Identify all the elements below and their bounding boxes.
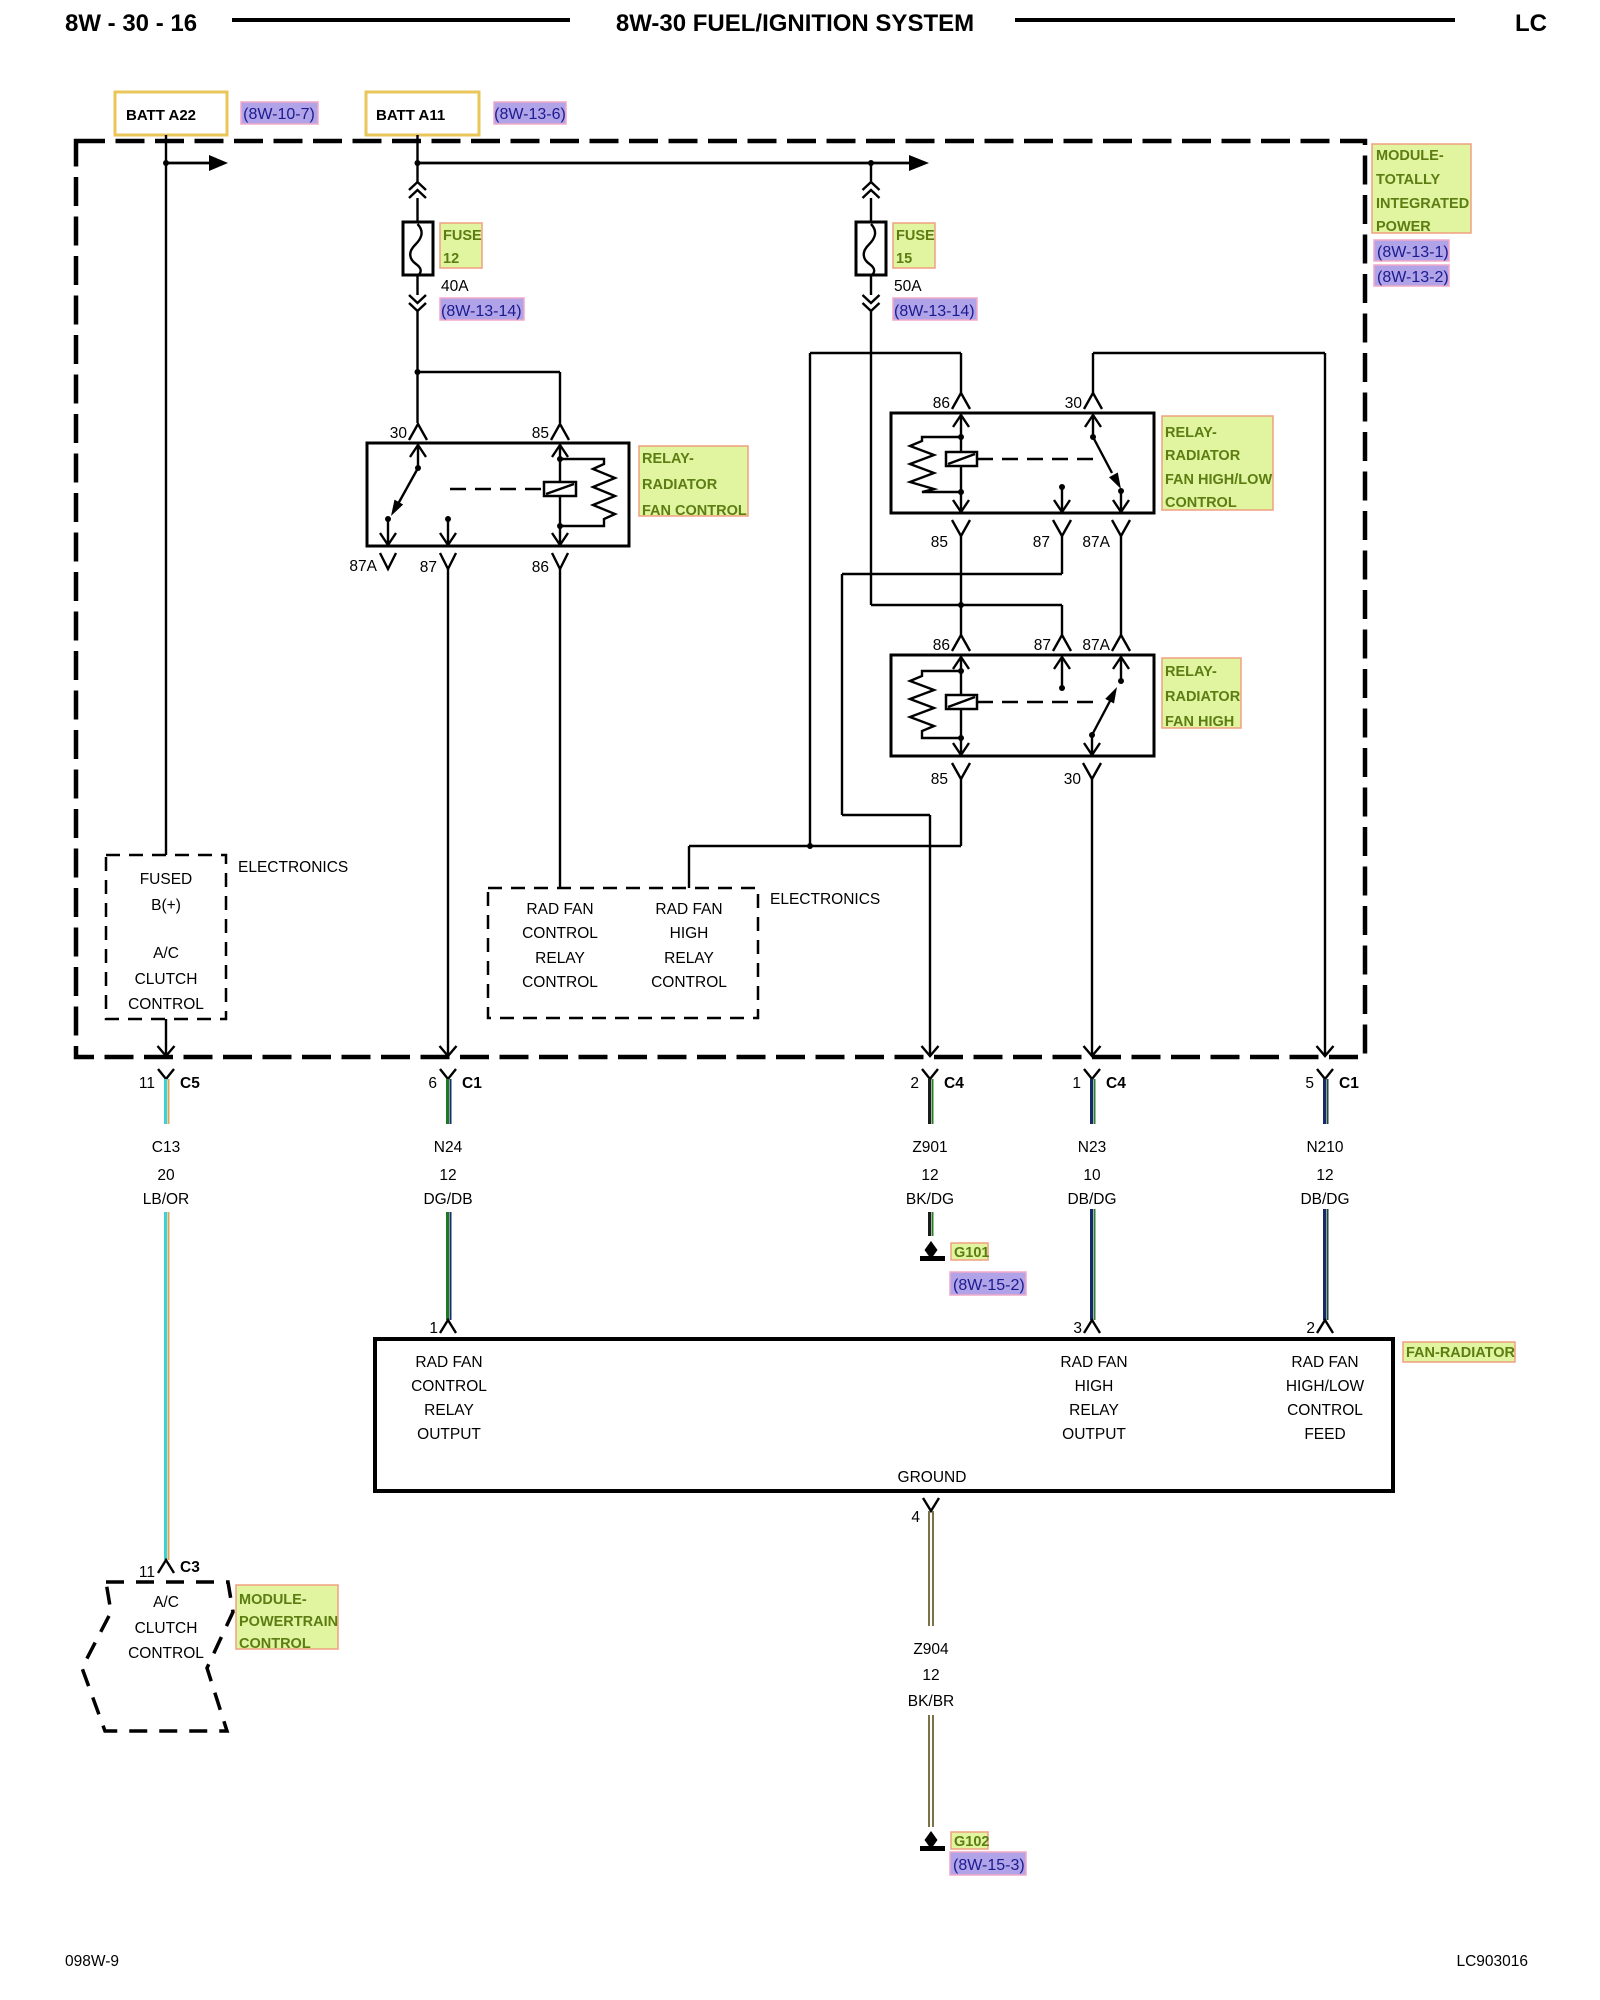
svg-text:FAN HIGH: FAN HIGH — [1165, 714, 1234, 730]
wire A11 feed horizontal — [418, 155, 930, 171]
reference (8W-13-14) — [893, 298, 977, 320]
svg-text:HIGH/LOW: HIGH/LOW — [1286, 1378, 1365, 1395]
svg-text:N210: N210 — [1306, 1139, 1343, 1156]
svg-text:8W-30 FUEL/IGNITION SYSTEM: 8W-30 FUEL/IGNITION SYSTEM — [616, 10, 974, 37]
pin 86 internal terminal — [552, 526, 568, 545]
node junction fuse 12 branch — [415, 369, 421, 375]
svg-text:30: 30 — [1064, 771, 1082, 788]
connector C1 terminal chevron — [1317, 1069, 1333, 1079]
pin 86 internal terminal — [953, 657, 969, 671]
pin 87A connector caret — [1112, 520, 1130, 536]
pin 87 connector caret — [1053, 520, 1071, 536]
pin 85 internal terminal — [552, 445, 568, 459]
header rule right — [1015, 18, 1455, 22]
label MODULE-POWERTRAIN CONTROL — [236, 1585, 338, 1652]
wire N210 12 DB/DG segment 1 — [1325, 1079, 1328, 1124]
ground G101 — [920, 1241, 945, 1261]
svg-text:OUTPUT: OUTPUT — [417, 1426, 481, 1443]
resistor K2 coil shunt — [910, 437, 961, 492]
wire — [416, 198, 418, 222]
svg-text:30: 30 — [1065, 395, 1083, 412]
svg-text:85: 85 — [931, 534, 948, 551]
svg-text:CONTROL: CONTROL — [522, 974, 598, 991]
svg-text:RAD FAN: RAD FAN — [1291, 1354, 1358, 1371]
svg-text:RELAY: RELAY — [664, 950, 714, 967]
node junction on A22 feed — [163, 160, 169, 166]
svg-text:86: 86 — [532, 559, 549, 576]
pin 86 internal terminal — [953, 415, 969, 437]
svg-text:OUTPUT: OUTPUT — [1062, 1426, 1126, 1443]
wire label N24 12 DG/DB — [423, 1139, 472, 1208]
svg-text:N23: N23 — [1078, 1139, 1106, 1156]
svg-text:FUSE: FUSE — [896, 228, 935, 244]
pin 85 connector caret — [952, 763, 970, 779]
svg-text:CONTROL: CONTROL — [1287, 1402, 1363, 1419]
pin 87 connector caret — [1053, 635, 1071, 651]
svg-text:C13: C13 — [152, 1139, 180, 1156]
wire K1 pin 86 to electronics — [559, 569, 561, 888]
svg-text:CONTROL: CONTROL — [651, 974, 727, 991]
svg-text:CONTROL: CONTROL — [411, 1378, 487, 1395]
reference (8W-10-7) — [241, 102, 318, 124]
switch arm K3 — [1089, 687, 1117, 738]
svg-text:BK/DG: BK/DG — [906, 1191, 954, 1208]
wire K2-87 ground path — [842, 536, 1062, 1056]
wire N24 12 DG/DB segment 1 — [448, 1079, 451, 1124]
label RELAY-RADIATOR FAN HIGH/LOW CONTROL — [1162, 416, 1273, 511]
svg-text:FAN CONTROL: FAN CONTROL — [642, 503, 747, 519]
module PCM partial outline A/C clutch control — [82, 1582, 233, 1731]
svg-text:(8W-13-14): (8W-13-14) — [441, 303, 522, 320]
svg-text:87A: 87A — [1082, 534, 1110, 551]
svg-text:(8W-15-2): (8W-15-2) — [953, 1277, 1025, 1294]
svg-text:12: 12 — [439, 1167, 456, 1184]
pin 85 internal terminal — [953, 738, 969, 755]
reference (8W-15-2) — [950, 1272, 1026, 1295]
pin 30 connector caret — [1084, 393, 1102, 409]
node — [1090, 434, 1096, 440]
pin 30 internal terminal — [1085, 415, 1101, 437]
svg-text:CONTROL: CONTROL — [1165, 495, 1237, 511]
svg-text:C4: C4 — [944, 1075, 964, 1092]
svg-text:RAD FAN: RAD FAN — [655, 901, 722, 918]
relay K1 radiator fan control box — [367, 443, 629, 546]
svg-text:(8W-10-7): (8W-10-7) — [243, 106, 315, 123]
svg-text:12: 12 — [921, 1167, 938, 1184]
wire K2-87A to K3-87A — [1120, 536, 1122, 635]
wire K1 pin 87 to connector C1-6 — [447, 569, 449, 1056]
svg-text:C1: C1 — [462, 1075, 482, 1092]
svg-text:12: 12 — [443, 251, 459, 267]
svg-text:20: 20 — [157, 1167, 175, 1184]
svg-text:C1: C1 — [1339, 1075, 1359, 1092]
svg-text:RADIATOR: RADIATOR — [1165, 689, 1241, 705]
header rule left — [232, 18, 570, 22]
svg-text:1: 1 — [1072, 1075, 1081, 1092]
svg-text:G101: G101 — [954, 1245, 989, 1261]
connector caret fan pin 4 ground — [923, 1498, 939, 1511]
wire TIPM internal to K2-86 — [810, 352, 961, 354]
svg-text:BATT A11: BATT A11 — [376, 107, 445, 124]
svg-text:DB/DG: DB/DG — [1300, 1191, 1349, 1208]
pin 87A internal terminal — [1113, 488, 1129, 512]
switch arm K2 — [1093, 437, 1121, 489]
svg-text:40A: 40A — [441, 278, 469, 295]
node junction at A11 — [415, 160, 421, 166]
wire C13 20 LB/OR segment 1 — [166, 1079, 169, 1124]
svg-text:85: 85 — [931, 771, 948, 788]
fuse F15 — [856, 222, 886, 276]
label RELAY-RADIATOR FAN CONTROL — [639, 446, 748, 519]
node — [958, 735, 964, 741]
wire — [870, 275, 872, 295]
wire label N210 12 DB/DG — [1300, 1139, 1349, 1208]
pin 30 internal terminal — [1084, 735, 1100, 755]
svg-text:CONTROL: CONTROL — [239, 1636, 311, 1652]
svg-text:(8W-13-1): (8W-13-1) — [1377, 244, 1449, 261]
svg-text:LB/OR: LB/OR — [143, 1191, 190, 1208]
svg-text:(8W-13-6): (8W-13-6) — [494, 106, 566, 123]
battery feed label BATT A11 — [366, 92, 479, 135]
svg-text:HIGH: HIGH — [670, 925, 709, 942]
wire Z904 12 BK/BR segment 2 — [929, 1715, 933, 1827]
svg-text:FAN-RADIATOR: FAN-RADIATOR — [1406, 1345, 1516, 1361]
label G102 — [951, 1832, 989, 1850]
wire N23 10 DB/DG segment 1 — [1092, 1079, 1095, 1124]
svg-text:C4: C4 — [1106, 1075, 1126, 1092]
wire N23 10 DB/DG segment 2 — [1092, 1209, 1095, 1320]
svg-text:ELECTRONICS: ELECTRONICS — [238, 859, 348, 876]
wire K2-30 to C1-5 feed — [1093, 352, 1325, 354]
node junction at K3-86 — [958, 602, 964, 608]
node — [415, 465, 421, 471]
svg-text:86: 86 — [933, 637, 950, 654]
svg-text:POWER: POWER — [1376, 219, 1431, 235]
connector C5 terminal chevron — [158, 1069, 174, 1079]
connector C3 terminal chevron — [158, 1560, 174, 1573]
svg-text:RELAY-: RELAY- — [1165, 425, 1217, 441]
svg-text:CLUTCH: CLUTCH — [135, 971, 198, 988]
wire fuse F15 distribution — [871, 604, 1062, 606]
connector C1 pin 5 exit arrow — [1317, 1046, 1334, 1056]
actuator dashed link K2 — [977, 458, 1100, 460]
svg-text:RAD FAN: RAD FAN — [1060, 1354, 1127, 1371]
svg-text:11: 11 — [139, 1075, 155, 1092]
svg-text:RELAY-: RELAY- — [642, 451, 694, 467]
svg-text:CONTROL: CONTROL — [128, 996, 204, 1013]
svg-text:BK/BR: BK/BR — [908, 1693, 955, 1710]
svg-text:CLUTCH: CLUTCH — [135, 1620, 198, 1637]
svg-text:POWERTRAIN: POWERTRAIN — [239, 1614, 338, 1630]
node — [958, 489, 964, 495]
svg-text:(8W-13-14): (8W-13-14) — [894, 303, 975, 320]
svg-text:B(+): B(+) — [151, 897, 181, 914]
wire relay K2 pin 30 riser — [1092, 353, 1094, 393]
svg-text:(8W-13-2): (8W-13-2) — [1377, 269, 1449, 286]
svg-text:FUSED: FUSED — [140, 871, 193, 888]
module PCM partial FUSED B+ dashed box — [106, 855, 226, 1019]
wire Z901 12 BK/DG segment 2 — [930, 1212, 933, 1236]
svg-text:FAN HIGH/LOW: FAN HIGH/LOW — [1165, 472, 1272, 488]
svg-text:15: 15 — [896, 251, 912, 267]
wire label N23 10 DB/DG — [1067, 1139, 1116, 1208]
relay K3 radiator fan high box — [891, 655, 1154, 756]
node — [557, 523, 563, 529]
svg-text:CONTROL: CONTROL — [128, 1645, 204, 1662]
pin 87 connector caret — [440, 553, 456, 569]
connector C1 terminal chevron — [440, 1069, 456, 1079]
actuator dashed link K3 — [977, 701, 1095, 703]
pin 85 internal terminal — [953, 492, 969, 512]
actuator dashed link K1 — [450, 488, 544, 490]
svg-text:RADIATOR: RADIATOR — [642, 477, 718, 493]
svg-text:2: 2 — [910, 1075, 919, 1092]
svg-text:4: 4 — [911, 1509, 920, 1526]
label FUSE 12 — [440, 223, 482, 268]
label MODULE-TOTALLY INTEGRATED POWER — [1372, 144, 1471, 235]
connector caret fan pin 1 — [440, 1320, 456, 1333]
pin 87 internal terminal — [1054, 484, 1070, 512]
svg-text:5: 5 — [1305, 1075, 1314, 1092]
svg-text:MODULE-: MODULE- — [239, 1592, 307, 1608]
svg-text:8W - 30 - 16: 8W - 30 - 16 — [65, 10, 197, 37]
pin 86 connector caret — [952, 635, 970, 651]
svg-text:ELECTRONICS: ELECTRONICS — [770, 891, 880, 908]
wire A22 branch arrow — [166, 155, 228, 171]
svg-text:RAD FAN: RAD FAN — [415, 1354, 482, 1371]
connector chevrons above fuse F12 — [409, 182, 426, 198]
svg-text:12: 12 — [1316, 1167, 1333, 1184]
wire drop to electronics box — [688, 846, 690, 888]
wire relay K2 pin 86 riser — [960, 353, 962, 393]
wire fuse F15 output — [870, 311, 872, 605]
node junction — [807, 843, 813, 849]
svg-text:3: 3 — [1073, 1320, 1082, 1337]
pin 87 internal terminal — [440, 516, 456, 545]
svg-text:FEED: FEED — [1304, 1426, 1345, 1443]
relay K2 radiator fan high/low control box — [891, 413, 1154, 513]
node junction fuse 15 tap — [868, 160, 874, 166]
pin 30 connector caret — [409, 424, 427, 440]
node — [958, 668, 964, 674]
coil K1 — [544, 459, 576, 526]
pin 30 connector caret — [1083, 763, 1101, 779]
svg-text:6: 6 — [428, 1075, 437, 1092]
resistor K1 coil shunt — [560, 459, 615, 526]
node — [557, 456, 563, 462]
wire — [416, 275, 418, 295]
svg-text:TOTALLY: TOTALLY — [1376, 172, 1441, 188]
svg-text:098W-9: 098W-9 — [65, 1953, 119, 1970]
svg-text:RELAY: RELAY — [1069, 1402, 1119, 1419]
svg-text:DB/DG: DB/DG — [1067, 1191, 1116, 1208]
connector chevrons above fuse F15 — [863, 182, 880, 198]
svg-text:12: 12 — [922, 1667, 939, 1684]
battery feed label BATT A22 — [115, 92, 227, 135]
svg-text:HIGH: HIGH — [1075, 1378, 1114, 1395]
svg-text:87: 87 — [420, 559, 437, 576]
svg-text:50A: 50A — [894, 278, 922, 295]
module U1 Totally Integrated Power dashed outline — [76, 141, 1365, 1057]
svg-text:LC: LC — [1515, 10, 1547, 37]
electronics control dashed box — [488, 888, 758, 1018]
svg-text:FUSE: FUSE — [443, 228, 482, 244]
pin 87A connector caret — [380, 553, 396, 569]
pin 87A internal terminal — [1113, 657, 1129, 684]
wire BATT A22 vertical — [165, 135, 167, 855]
pin 87A internal terminal — [380, 516, 396, 545]
svg-text:RELAY: RELAY — [535, 950, 585, 967]
pin 87A connector caret — [1112, 635, 1130, 651]
connector caret fan pin 3 — [1084, 1320, 1100, 1333]
component fan-radiator box — [375, 1339, 1393, 1491]
wire N24 12 DG/DB segment 2 — [448, 1212, 451, 1320]
svg-text:RAD FAN: RAD FAN — [526, 901, 593, 918]
connector C4 pin 1 exit arrow — [1084, 1046, 1101, 1056]
pin 85 connector caret — [952, 520, 970, 536]
coil K2 — [946, 437, 977, 492]
wire electronics to K3-85 — [689, 845, 961, 847]
wire branch to relay K1 pin 85 — [418, 371, 561, 373]
svg-text:87A: 87A — [1082, 637, 1110, 654]
wire label Z904 12 BK/BR — [908, 1641, 955, 1710]
svg-text:CONTROL: CONTROL — [522, 925, 598, 942]
wire — [870, 163, 872, 182]
wire fuse F12 output — [416, 311, 418, 423]
wire C13 20 LB/OR segment 2 — [166, 1212, 169, 1560]
wire label Z901 12 BK/DG — [906, 1139, 954, 1208]
connector C1 pin 6 exit arrow — [440, 1046, 457, 1056]
reference (8W-13-14) — [440, 298, 524, 320]
coil K3 — [946, 671, 977, 738]
pin 86 connector caret — [952, 393, 970, 409]
resistor K3 coil shunt — [910, 671, 961, 738]
svg-text:85: 85 — [532, 425, 549, 442]
wire K2-85 to fuse F15 node — [960, 536, 962, 605]
svg-text:GROUND: GROUND — [898, 1469, 967, 1486]
wire K3-30 to connector C4-1 — [1091, 779, 1093, 1056]
wire Z901 12 BK/DG segment 1 — [930, 1079, 933, 1124]
connector C5 pin 11 exit arrow — [158, 1019, 175, 1056]
wire BATT A11 vertical — [416, 135, 418, 182]
svg-text:LC903016: LC903016 — [1456, 1953, 1528, 1970]
svg-text:MODULE-: MODULE- — [1376, 148, 1444, 164]
pin 87 internal terminal — [1054, 657, 1070, 691]
label G101 — [951, 1243, 989, 1261]
connector chevrons below fuse F15 — [863, 295, 880, 311]
ground G102 — [920, 1831, 945, 1851]
svg-text:A/C: A/C — [153, 1594, 179, 1611]
svg-text:RELAY-: RELAY- — [1165, 664, 1217, 680]
connector chevrons below fuse F12 — [409, 295, 426, 311]
svg-text:30: 30 — [390, 425, 408, 442]
wire to K3-86 — [960, 605, 962, 635]
svg-text:G102: G102 — [954, 1834, 989, 1850]
svg-text:Z904: Z904 — [913, 1641, 949, 1658]
svg-text:2: 2 — [1306, 1320, 1315, 1337]
reference (8W-15-3) — [950, 1852, 1026, 1875]
svg-text:BATT A22: BATT A22 — [126, 107, 196, 124]
wire N210 12 DB/DG segment 2 — [1325, 1209, 1328, 1320]
connector C4 terminal chevron — [1084, 1069, 1100, 1079]
wire label C13 20 LB/OR — [143, 1139, 190, 1208]
svg-text:C5: C5 — [180, 1075, 200, 1092]
connector C4 terminal chevron — [922, 1069, 938, 1079]
wire to K3-87 — [1061, 605, 1063, 635]
reference (8W-13-1) — [1374, 240, 1449, 261]
svg-text:N24: N24 — [434, 1139, 463, 1156]
label FAN-RADIATOR — [1403, 1342, 1516, 1362]
switch arm K1 — [391, 468, 418, 516]
svg-text:87: 87 — [1034, 637, 1051, 654]
svg-text:10: 10 — [1083, 1167, 1101, 1184]
svg-text:A/C: A/C — [153, 945, 179, 962]
svg-text:RADIATOR: RADIATOR — [1165, 448, 1241, 464]
svg-text:86: 86 — [933, 395, 950, 412]
svg-text:11: 11 — [139, 1564, 155, 1581]
svg-text:87A: 87A — [349, 558, 377, 575]
svg-text:Z901: Z901 — [912, 1139, 947, 1156]
svg-text:RELAY: RELAY — [424, 1402, 474, 1419]
reference (8W-13-6) — [494, 102, 566, 124]
svg-text:1: 1 — [429, 1320, 438, 1337]
svg-text:(8W-15-3): (8W-15-3) — [953, 1857, 1025, 1874]
pin 85 connector caret — [551, 424, 569, 440]
svg-text:87: 87 — [1033, 534, 1050, 551]
pin 30 internal terminal — [410, 445, 426, 468]
label FUSE 15 — [893, 223, 935, 268]
wire Z904 12 BK/BR segment 1 — [929, 1511, 933, 1626]
wire internal control drop — [809, 353, 811, 846]
svg-text:DG/DB: DG/DB — [423, 1191, 472, 1208]
node — [958, 434, 964, 440]
wire K3-85 control path — [960, 779, 962, 846]
svg-text:INTEGRATED: INTEGRATED — [1376, 196, 1469, 212]
fuse F12 — [403, 222, 433, 276]
connector C4 pin 2 exit arrow — [922, 1046, 939, 1056]
pin 86 connector caret — [552, 553, 568, 569]
svg-text:C3: C3 — [180, 1559, 200, 1576]
connector caret fan pin 2 — [1317, 1320, 1333, 1333]
label RELAY-RADIATOR FAN HIGH — [1162, 658, 1241, 730]
reference (8W-13-2) — [1374, 265, 1449, 286]
